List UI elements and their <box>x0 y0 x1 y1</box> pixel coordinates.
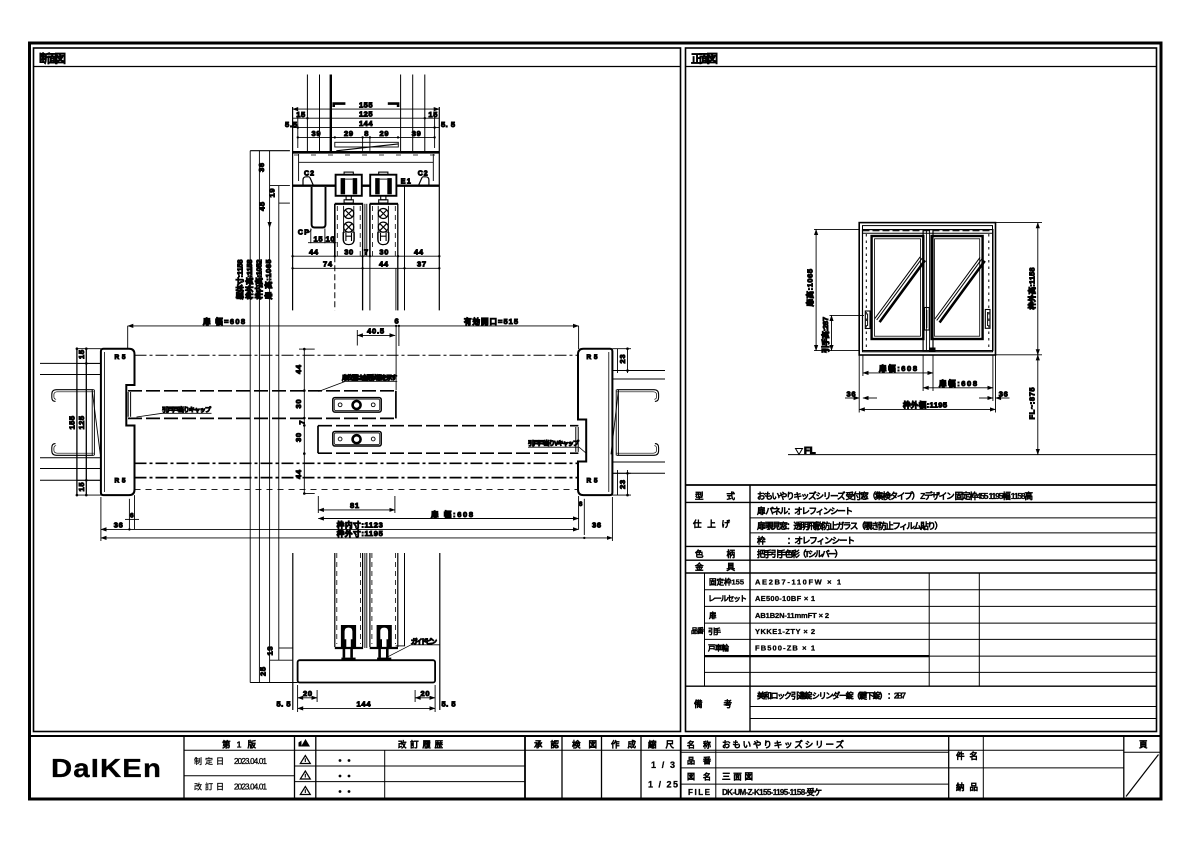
centerline mid2 <box>135 477 579 479</box>
right door slot <box>378 206 388 245</box>
svg-text:FL: FL <box>804 446 816 457</box>
C stud left diagonal <box>92 391 100 455</box>
svg-text:FL~:875: FL~:875 <box>1027 388 1036 420</box>
rail cover diagonal <box>336 144 398 151</box>
left panel border <box>34 48 681 732</box>
tick door top <box>279 202 290 204</box>
svg-text:155: 155 <box>68 416 77 430</box>
svg-text:扉高:1065: 扉高:1065 <box>805 269 815 308</box>
ext line frame top right <box>996 222 1043 224</box>
svg-text:1 / 3: 1 / 3 <box>651 760 675 770</box>
svg-text:30: 30 <box>379 248 388 257</box>
ext verticals top dim <box>127 326 129 349</box>
svg-text:23: 23 <box>618 355 627 364</box>
svg-text:74: 74 <box>323 260 333 269</box>
C stud right diagonal <box>611 391 618 455</box>
vertical dim line 1065 <box>278 186 280 661</box>
svg-text:13: 13 <box>266 647 275 656</box>
svg-text:型 式: 型 式 <box>695 491 735 501</box>
top track dashed line <box>863 230 993 232</box>
svg-text:戸車輪: 戸車輪 <box>708 643 730 653</box>
C2 cutout right <box>419 177 429 185</box>
svg-text:30: 30 <box>294 400 303 409</box>
lower door right cap <box>577 427 579 452</box>
tick door bottom <box>279 647 293 649</box>
svg-text:名 称: 名 称 <box>687 740 711 750</box>
svg-text:39: 39 <box>412 129 421 138</box>
right jamb <box>578 349 612 495</box>
C stud left web <box>91 390 93 456</box>
left jamb <box>101 349 135 495</box>
top centerline <box>135 354 579 356</box>
svg-text:品番: 品番 <box>691 626 705 635</box>
dim 20 left <box>297 685 299 712</box>
ext line door top left <box>814 228 859 230</box>
center dim column <box>303 349 305 493</box>
rail profile rect <box>335 142 399 147</box>
svg-text:15: 15 <box>428 110 437 119</box>
title block verticals <box>183 736 185 799</box>
dim 6 right <box>578 496 580 529</box>
door top left thick <box>335 203 363 205</box>
svg-text:三面図: 三面図 <box>722 772 753 782</box>
svg-text:枠外高:1158: 枠外高:1158 <box>1026 268 1036 311</box>
left dim pair 155/125 <box>76 349 78 495</box>
svg-text:15: 15 <box>77 483 86 492</box>
left door slot <box>344 206 354 245</box>
roller left <box>336 172 362 203</box>
svg-text:CP: CP <box>298 230 309 237</box>
wall lines left <box>40 362 101 364</box>
svg-text:AB1B2N-11mmFT × 2: AB1B2N-11mmFT × 2 <box>755 611 829 620</box>
svg-text:7: 7 <box>364 248 368 257</box>
svg-text:ガイドピン: ガイドピン <box>411 636 438 645</box>
left panel header line <box>34 66 681 68</box>
ext vertical 144 left <box>297 113 299 148</box>
door top right thick <box>370 203 398 205</box>
handle center <box>925 308 930 331</box>
bottom dim 81 <box>317 496 319 513</box>
title block top line <box>30 735 1162 737</box>
svg-text:8: 8 <box>364 129 368 138</box>
left door glass inner <box>875 239 921 336</box>
svg-text:色 柄: 色 柄 <box>695 549 735 559</box>
arrow 45 end <box>268 222 272 228</box>
right panel border <box>686 48 1157 732</box>
warning triangle 1 <box>300 756 310 764</box>
svg-text:144: 144 <box>359 119 373 128</box>
svg-text:36: 36 <box>114 520 123 529</box>
svg-text:扉: 扉 <box>708 610 717 620</box>
triangle column header mark <box>299 739 311 747</box>
svg-text:引戸戸当りVキャップ: 引戸戸当りVキャップ <box>528 440 580 448</box>
dim 枠外幅1195 <box>859 408 995 410</box>
dim row 155 <box>293 108 440 110</box>
upper door right end <box>395 391 397 419</box>
right door diagonal stripe <box>935 257 980 319</box>
svg-text:改訂日: 改訂日 <box>194 782 224 792</box>
svg-text:15: 15 <box>296 110 305 119</box>
svg-text:20: 20 <box>303 689 312 698</box>
svg-text:45: 45 <box>258 202 267 211</box>
svg-text:29: 29 <box>380 129 389 138</box>
dim 40.5 <box>357 334 395 336</box>
svg-text:15: 15 <box>77 350 86 359</box>
dim 枠外1195 <box>101 537 613 539</box>
dim 6 left <box>128 499 130 530</box>
svg-text:15: 15 <box>314 235 323 244</box>
center gap lines bottom <box>364 553 366 648</box>
lower door band top dashed <box>318 425 578 427</box>
section right boundary line <box>438 107 440 310</box>
dim line 枠外高1158 <box>1037 223 1039 355</box>
svg-text:44: 44 <box>294 364 303 374</box>
dashed line low <box>135 488 579 490</box>
C2 cutout left <box>303 177 313 185</box>
svg-text:正面図: 正面図 <box>691 52 718 66</box>
ext line frame bottom right <box>996 354 1043 356</box>
svg-text:36: 36 <box>257 163 266 172</box>
dim 36 left <box>845 397 859 399</box>
title block header row line <box>184 749 1124 751</box>
svg-text:6: 6 <box>130 512 134 519</box>
section left boundary line <box>292 107 294 310</box>
right door leaf <box>923 230 993 351</box>
svg-text:改 訂 履 歴: 改 訂 履 歴 <box>398 740 443 750</box>
svg-text:6: 6 <box>579 501 583 508</box>
dim row 39-29-8-29-39 <box>298 136 435 138</box>
lower pull <box>333 432 381 447</box>
svg-text:おもいやりキッズシリーズ: おもいやりキッズシリーズ <box>722 740 844 750</box>
dim 36 right <box>979 397 993 399</box>
lower door left end <box>317 426 319 454</box>
svg-text:5. 5: 5. 5 <box>441 120 455 129</box>
dim 枠内1123 <box>101 528 579 530</box>
bottom dim 608 <box>318 518 578 520</box>
svg-text:FILE: FILE <box>688 788 711 797</box>
door bottom thick right <box>370 647 398 649</box>
svg-text:躯体寸:1158: 躯体寸:1158 <box>235 259 245 300</box>
wall stud line 3 thick <box>330 75 332 152</box>
wall stud line 4 <box>400 75 402 152</box>
svg-text:23: 23 <box>618 480 627 489</box>
center gap lines <box>364 204 366 256</box>
svg-text:引手高:287: 引手高:287 <box>820 317 830 353</box>
dim line 引手高287 <box>831 315 833 350</box>
upper door band bottom dashed <box>128 417 396 419</box>
dim row 125 with 15s <box>293 117 440 119</box>
warning triangle 2 <box>300 771 310 779</box>
svg-text:36: 36 <box>999 390 1008 399</box>
right panel header line <box>686 66 1157 68</box>
left door glass frame <box>872 236 924 339</box>
guide pin left <box>341 625 356 661</box>
center meeting stiles <box>925 230 927 351</box>
dim 扉幅608 right <box>923 387 993 389</box>
right section rows <box>681 751 949 753</box>
svg-text:DaIKEn: DaIKEn <box>51 753 162 783</box>
svg-text:引戸戸当りキャップ: 引戸戸当りキャップ <box>162 406 212 414</box>
right door edges bottom <box>369 553 371 647</box>
upper door left cap <box>127 392 129 417</box>
svg-text:固定枠155: 固定枠155 <box>709 577 744 587</box>
window outer frame <box>859 223 995 355</box>
handle left door <box>865 311 870 329</box>
dim line FL-875 <box>1037 355 1039 455</box>
housing top inner dashes <box>294 154 438 156</box>
C stud right web <box>615 390 617 456</box>
svg-text:AE500-10BF × 1: AE500-10BF × 1 <box>755 594 815 603</box>
wall stud line 2 <box>319 75 321 152</box>
C stud left top flange <box>52 390 94 402</box>
top track solid line <box>863 232 993 234</box>
svg-text:5. 5: 5. 5 <box>277 700 291 709</box>
svg-text:36: 36 <box>592 520 601 529</box>
svg-text:納 品: 納 品 <box>956 782 978 792</box>
dim 20 right <box>434 685 436 712</box>
vertical dim line 1052 <box>269 151 271 683</box>
vertical dim line 1158b <box>258 151 260 683</box>
rail hook bracket right <box>388 104 398 107</box>
page cell diagonal <box>1126 755 1159 797</box>
center lock mark <box>929 348 936 353</box>
CP strike plate <box>312 187 326 228</box>
screws left door <box>343 209 354 245</box>
svg-text:扉位置は全閉状態を示す: 扉位置は全閉状態を示す <box>341 374 397 382</box>
svg-text:件 名: 件 名 <box>956 751 978 761</box>
C stud right bottom flange <box>617 444 659 456</box>
svg-text:2023.04.01: 2023.04.01 <box>234 783 268 792</box>
lower door band bottom dashed <box>318 452 578 454</box>
C stud left bottom flange <box>52 444 94 456</box>
ext line door bottom left <box>814 350 860 352</box>
C stud right top flange <box>617 390 659 402</box>
wall lines right <box>612 370 665 372</box>
tick top housing <box>250 150 290 152</box>
dots rows <box>339 759 351 793</box>
right wall finish bottom <box>404 553 406 646</box>
svg-text:1 / 25: 1 / 25 <box>648 780 678 790</box>
svg-text:縮 尺: 縮 尺 <box>648 740 674 750</box>
spec table verticals <box>749 485 751 732</box>
svg-text:制定日: 制定日 <box>194 756 224 766</box>
ext vertical 144 right <box>434 113 436 148</box>
dim row 74-44-37 <box>293 267 440 269</box>
svg-text:備 考: 備 考 <box>694 699 732 709</box>
svg-text:125: 125 <box>77 416 86 430</box>
svg-text:把手 引手 色彩（Tシルバー）: 把手 引手 色彩（Tシルバー） <box>757 549 843 559</box>
svg-text:枠外幅:1195: 枠外幅:1195 <box>902 400 947 410</box>
svg-text:断面図: 断面図 <box>39 52 66 66</box>
svg-text:30: 30 <box>294 433 303 442</box>
ext verticals below frame <box>858 355 860 413</box>
housing inner top line <box>299 161 434 163</box>
svg-text:レールセット: レールセット <box>708 594 747 603</box>
dim 扉幅608 left <box>863 372 933 374</box>
svg-text:扉 幅=608: 扉 幅=608 <box>202 316 245 326</box>
spec table lines <box>686 484 1157 486</box>
svg-text:扉 パネル：オレフィンシート: 扉 パネル：オレフィンシート <box>756 506 853 516</box>
ext line handle top <box>830 314 865 316</box>
right door edges <box>369 204 371 256</box>
rail hook bracket left <box>334 104 346 107</box>
svg-text:44: 44 <box>379 260 389 269</box>
right dim 23 pair <box>617 349 619 373</box>
svg-text:枠内高:1052: 枠内高:1052 <box>254 259 264 300</box>
svg-text:扉幅:608: 扉幅:608 <box>938 378 977 388</box>
svg-text:37: 37 <box>417 260 426 269</box>
svg-text:品 番: 品 番 <box>687 756 712 766</box>
svg-text:枠内寸:1123: 枠内寸:1123 <box>336 520 383 530</box>
left door diagonal stripe <box>875 257 920 319</box>
svg-text:C2: C2 <box>418 171 428 178</box>
svg-text:19: 19 <box>268 189 277 198</box>
svg-text:44: 44 <box>414 248 424 257</box>
svg-text:6: 6 <box>395 316 399 325</box>
revision col rows <box>184 775 295 777</box>
top dim line 608/515 <box>128 325 579 327</box>
svg-text:10: 10 <box>326 235 335 244</box>
FL line <box>788 454 1156 456</box>
svg-text:C2: C2 <box>304 171 314 178</box>
left door edges <box>334 204 336 256</box>
svg-text:第 1 版: 第 1 版 <box>222 740 256 750</box>
rail center bracket <box>362 137 364 151</box>
svg-text:155: 155 <box>359 101 373 110</box>
right door glass inner <box>935 239 980 336</box>
dim line 扉高1065 <box>815 229 817 350</box>
svg-text:20: 20 <box>421 689 430 698</box>
tick floor top <box>270 659 293 661</box>
CP dim 15 10 <box>310 229 312 244</box>
svg-text:頁: 頁 <box>1139 740 1148 750</box>
housing bottom thick segments <box>293 184 336 186</box>
svg-text:扉 覗見窓：透明飛散防止ガラス（覗き防止フィルム貼り）: 扉 覗見窓：透明飛散防止ガラス（覗き防止フィルム貼り） <box>756 521 943 531</box>
svg-text:2023.04.01: 2023.04.01 <box>234 757 268 766</box>
svg-text:枠外高:1158: 枠外高:1158 <box>244 259 254 300</box>
svg-text:40.5: 40.5 <box>367 327 384 336</box>
wall stud line 5 <box>412 75 414 152</box>
ext verticals bottom dims <box>100 497 102 541</box>
svg-text:5. 5: 5. 5 <box>442 700 456 709</box>
upper door band top dashed <box>128 390 396 392</box>
dim row 44-30-7-30-44 <box>293 255 440 257</box>
svg-text:扉 高:1065: 扉 高:1065 <box>263 259 273 300</box>
dim row 144 with 5.5s <box>293 127 440 129</box>
dim 144 bottom <box>298 707 436 709</box>
svg-text:25: 25 <box>259 667 268 676</box>
svg-text:YKKE1-ZTY × 2: YKKE1-ZTY × 2 <box>755 627 815 636</box>
bottom boundary right <box>439 553 441 710</box>
bottom boundary left <box>292 553 294 710</box>
housing inner wall right <box>432 154 434 181</box>
handle right door <box>985 310 990 329</box>
svg-text:図 名: 図 名 <box>687 772 711 782</box>
svg-text:81: 81 <box>350 501 359 510</box>
wall stud line 6 <box>424 75 426 152</box>
svg-text:29: 29 <box>344 129 353 138</box>
svg-text:44: 44 <box>294 469 303 479</box>
svg-text:39: 39 <box>312 129 321 138</box>
svg-text:125: 125 <box>359 110 373 119</box>
floor box <box>298 660 436 682</box>
left door leaf <box>863 230 934 351</box>
door bottom thick left <box>335 647 363 649</box>
svg-text:おもいやりキッズシリーズ 受付窓（集検タイプ） Zデザイン: おもいやりキッズシリーズ 受付窓（集検タイプ） Zデザイン 固定枠455 119… <box>757 491 1033 501</box>
housing top thick line <box>293 151 440 154</box>
upper pull <box>333 398 381 413</box>
svg-text:36: 36 <box>847 390 856 399</box>
svg-text:AE2B7-110FW × 1: AE2B7-110FW × 1 <box>755 578 841 587</box>
centerline mid1 <box>135 462 579 464</box>
screws right door <box>378 209 389 245</box>
svg-text:30: 30 <box>344 248 353 257</box>
svg-text:枠 ：オレフィンシート: 枠 ：オレフィンシート <box>757 536 855 546</box>
svg-text:144: 144 <box>357 700 372 709</box>
roller right <box>370 172 396 203</box>
warning triangle 3 <box>300 787 310 795</box>
tick floor bottom <box>250 682 297 684</box>
window inner frame <box>863 226 993 352</box>
left door edges bottom <box>334 553 336 647</box>
svg-text:有効開口=515: 有効開口=515 <box>464 316 518 326</box>
FL marker <box>796 449 803 455</box>
frame jamb dotted strip left <box>865 234 867 348</box>
housing inner wall left <box>298 154 300 181</box>
vertical dim line 1158a <box>249 151 251 683</box>
wall stud line 1 <box>306 75 308 152</box>
svg-text:5.5: 5.5 <box>285 120 297 129</box>
svg-text:44: 44 <box>309 248 319 257</box>
svg-text:7: 7 <box>298 420 307 424</box>
svg-text:枠外寸:1195: 枠外寸:1195 <box>336 528 383 538</box>
tick housing bottom <box>270 185 290 187</box>
svg-text:美和ロック引違錠 シリンダー錠（鍵下錠） ：2B7: 美和ロック引違錠 シリンダー錠（鍵下錠） ：2B7 <box>757 691 907 701</box>
right door glass frame <box>932 236 983 339</box>
right wall finish line <box>404 186 406 311</box>
frame jamb dotted strip right <box>988 234 990 348</box>
svg-text:仕 上 げ: 仕 上 げ <box>692 519 730 529</box>
svg-text:DK-UM-Z-K155-1195-1158-受ケ: DK-UM-Z-K155-1195-1158-受ケ <box>722 787 822 797</box>
guide pin right <box>377 625 392 661</box>
svg-text:扉幅:608: 扉幅:608 <box>878 363 917 373</box>
svg-text:引手: 引手 <box>708 626 722 636</box>
svg-text:FB500-ZB × 1: FB500-ZB × 1 <box>755 644 815 653</box>
